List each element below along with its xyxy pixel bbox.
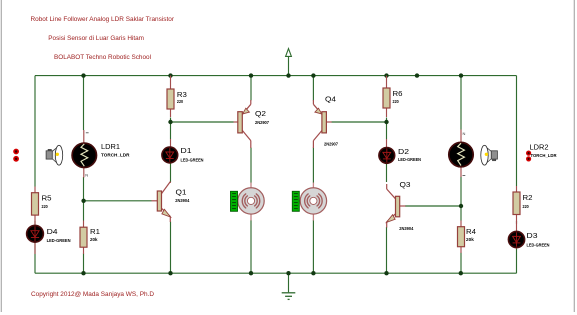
svg-text:20k: 20k — [90, 237, 98, 242]
junction node top rail at power — [286, 73, 290, 77]
motor left — [238, 183, 264, 221]
wire Q1 base net — [84, 200, 152, 202]
LED D3 — [508, 223, 524, 249]
junction node LDR2-R4-Q3 base — [459, 204, 463, 208]
wire Q2 base net — [171, 121, 234, 123]
svg-text:2N3904: 2N3904 — [175, 198, 189, 203]
svg-text:Q1: Q1 — [176, 189, 187, 196]
svg-text:2N2907: 2N2907 — [324, 142, 338, 147]
svg-text:Q2: Q2 — [255, 111, 266, 118]
wire right motor to GND — [312, 220, 314, 273]
svg-text:TORCH_LDR: TORCH_LDR — [101, 153, 130, 158]
svg-text:LDR1: LDR1 — [101, 144, 120, 151]
motor left tag — [231, 191, 238, 211]
wire GND bottom rail — [35, 272, 517, 274]
svg-text:Copyright 2012@ Mada Sanjaya W: Copyright 2012@ Mada Sanjaya WS, Ph.D — [31, 291, 154, 298]
svg-text:220: 220 — [523, 204, 530, 209]
wire right branch R2-D3 column — [516, 76, 518, 274]
svg-text:20k: 20k — [466, 237, 474, 242]
wire Q2 emitter to rail — [250, 76, 252, 101]
junction node GND rail at Q3 emitter — [384, 271, 388, 275]
svg-text:220: 220 — [177, 99, 184, 104]
transistor Q4 2N2907 PNP mirrored — [313, 100, 331, 148]
transistor Q2 2N2907 PNP — [234, 100, 251, 148]
junction node top rail at R3 — [168, 73, 172, 77]
junction node GND rail at ground stem — [286, 271, 290, 275]
wire left branch R5-D4 column — [34, 76, 36, 274]
svg-text:D2: D2 — [398, 149, 409, 156]
svg-text:220: 220 — [42, 204, 49, 209]
wire Q3 base net — [405, 205, 461, 207]
junction node top rail at LDR2 — [459, 73, 463, 77]
resistor R6 — [383, 76, 390, 117]
junction node top rail at Q2 emitter — [249, 73, 253, 77]
wire Q4 base net — [332, 121, 387, 123]
svg-text:D4: D4 — [47, 229, 58, 236]
svg-text:R5: R5 — [42, 196, 52, 203]
wire power stem — [288, 56, 290, 75]
LDR LDR2 — [449, 130, 473, 178]
LED D1 — [162, 139, 178, 163]
wire Q4 collector to right motor — [312, 148, 314, 183]
svg-text:Q3: Q3 — [400, 182, 411, 189]
junction node GND rail at R4 — [459, 271, 463, 275]
ground symbol — [282, 293, 296, 300]
window frame right — [573, 0, 575, 312]
junction node GND rail at Q1 emitter — [168, 271, 172, 275]
svg-text:N: N — [463, 131, 466, 136]
svg-text:R3: R3 — [177, 92, 187, 99]
torch icon left — [46, 145, 63, 165]
resistor R2 — [513, 186, 520, 224]
svg-text:2N2907: 2N2907 — [255, 120, 269, 125]
junction node GND rail at R1 — [81, 271, 85, 275]
svg-text:R4: R4 — [466, 229, 476, 236]
junction node R3-D1-Q2 base — [168, 120, 172, 124]
svg-text:LED-GREEN: LED-GREEN — [181, 157, 205, 162]
svg-text:R1: R1 — [90, 229, 100, 236]
wire Q4 emitter to rail — [312, 76, 314, 101]
svg-text:D1: D1 — [181, 148, 192, 155]
junction node top rail at R6 — [384, 73, 388, 77]
power terminal VCC arrow — [286, 49, 292, 57]
LED D4 — [27, 225, 44, 254]
svg-text:LED-GREEN: LED-GREEN — [47, 238, 72, 243]
resistor R1 — [80, 221, 87, 255]
svg-text:Posisi Sensor di Luar Garis Hi: Posisi Sensor di Luar Garis Hitam — [48, 35, 144, 42]
torch left floating pins — [13, 149, 19, 162]
svg-text:2N3904: 2N3904 — [399, 226, 413, 231]
resistor R3 — [167, 76, 174, 117]
resistor R5 — [32, 187, 39, 226]
junction node top rail at Q4 emitter — [311, 73, 315, 77]
svg-text:D3: D3 — [527, 233, 538, 240]
wire R6 D2 column — [386, 118, 388, 274]
LED D2 — [379, 139, 395, 163]
svg-text:LED-GREEN: LED-GREEN — [527, 243, 551, 248]
svg-text:R2: R2 — [523, 195, 533, 202]
wire R3 D1 column — [170, 118, 172, 274]
wire LDR1 column — [83, 76, 85, 274]
motor right — [300, 183, 326, 221]
svg-text:R6: R6 — [393, 91, 403, 98]
svg-text:N: N — [85, 173, 88, 178]
pin mark LDR2 bottom — [463, 175, 466, 177]
torch right floating pins — [526, 151, 531, 162]
junction node LDR1-R1-Q1 base — [81, 199, 85, 203]
svg-text:LED-GREEN: LED-GREEN — [398, 157, 422, 162]
wire VCC top rail — [35, 75, 517, 77]
junction node GND rail at right motor — [311, 271, 315, 275]
pin mark LDR1 top — [86, 132, 89, 134]
LDR LDR1 — [72, 130, 96, 178]
wire left motor to GND — [250, 220, 252, 273]
resistor R4 — [458, 221, 465, 254]
svg-text:LDR2: LDR2 — [530, 144, 549, 151]
junction node GND rail at left motor — [249, 271, 253, 275]
junction node R6-D2-Q4 base — [384, 120, 388, 124]
wire LDR2 column — [460, 76, 462, 274]
torch icon right — [481, 145, 498, 165]
junction node top rail x417 — [415, 73, 419, 77]
svg-text:TORCH_LDR: TORCH_LDR — [531, 153, 558, 158]
svg-text:BOLABOT Techno Robotic School: BOLABOT Techno Robotic School — [54, 54, 151, 61]
svg-text:Q4: Q4 — [325, 97, 336, 104]
wire ground stem — [288, 273, 290, 292]
transistor Q3 2N3904 NPN mirrored — [386, 184, 405, 228]
junction node top rail at LDR1 — [81, 73, 85, 77]
transistor Q1 2N3904 NPN — [152, 182, 171, 222]
svg-text:Robot Line Follower Analog LDR: Robot Line Follower Analog LDR Saklar Tr… — [31, 16, 175, 23]
motor right tag — [292, 191, 299, 211]
svg-text:220: 220 — [393, 99, 400, 104]
window frame left — [0, 0, 2, 312]
wire Q2 collector to left motor — [250, 148, 252, 183]
